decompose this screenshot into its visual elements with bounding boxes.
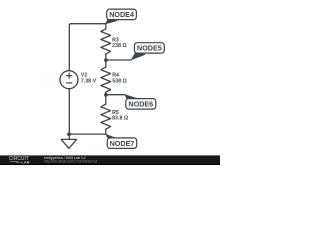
svg-text:LAB: LAB — [22, 160, 30, 164]
svg-text:238 Ω: 238 Ω — [112, 43, 127, 49]
svg-text:7.38 V: 7.38 V — [81, 78, 97, 84]
svg-text:83.8 Ω: 83.8 Ω — [112, 116, 129, 122]
svg-text:538 Ω: 538 Ω — [112, 78, 127, 84]
svg-text:NODE5: NODE5 — [137, 44, 162, 53]
svg-text:http://circuitlab.com/c/7cb4db: http://circuitlab.com/c/7cb4db8a7a4 — [44, 160, 97, 164]
svg-text:NODE7: NODE7 — [110, 139, 135, 148]
svg-text:NODE4: NODE4 — [109, 10, 134, 19]
svg-text:NODE6: NODE6 — [128, 100, 153, 109]
